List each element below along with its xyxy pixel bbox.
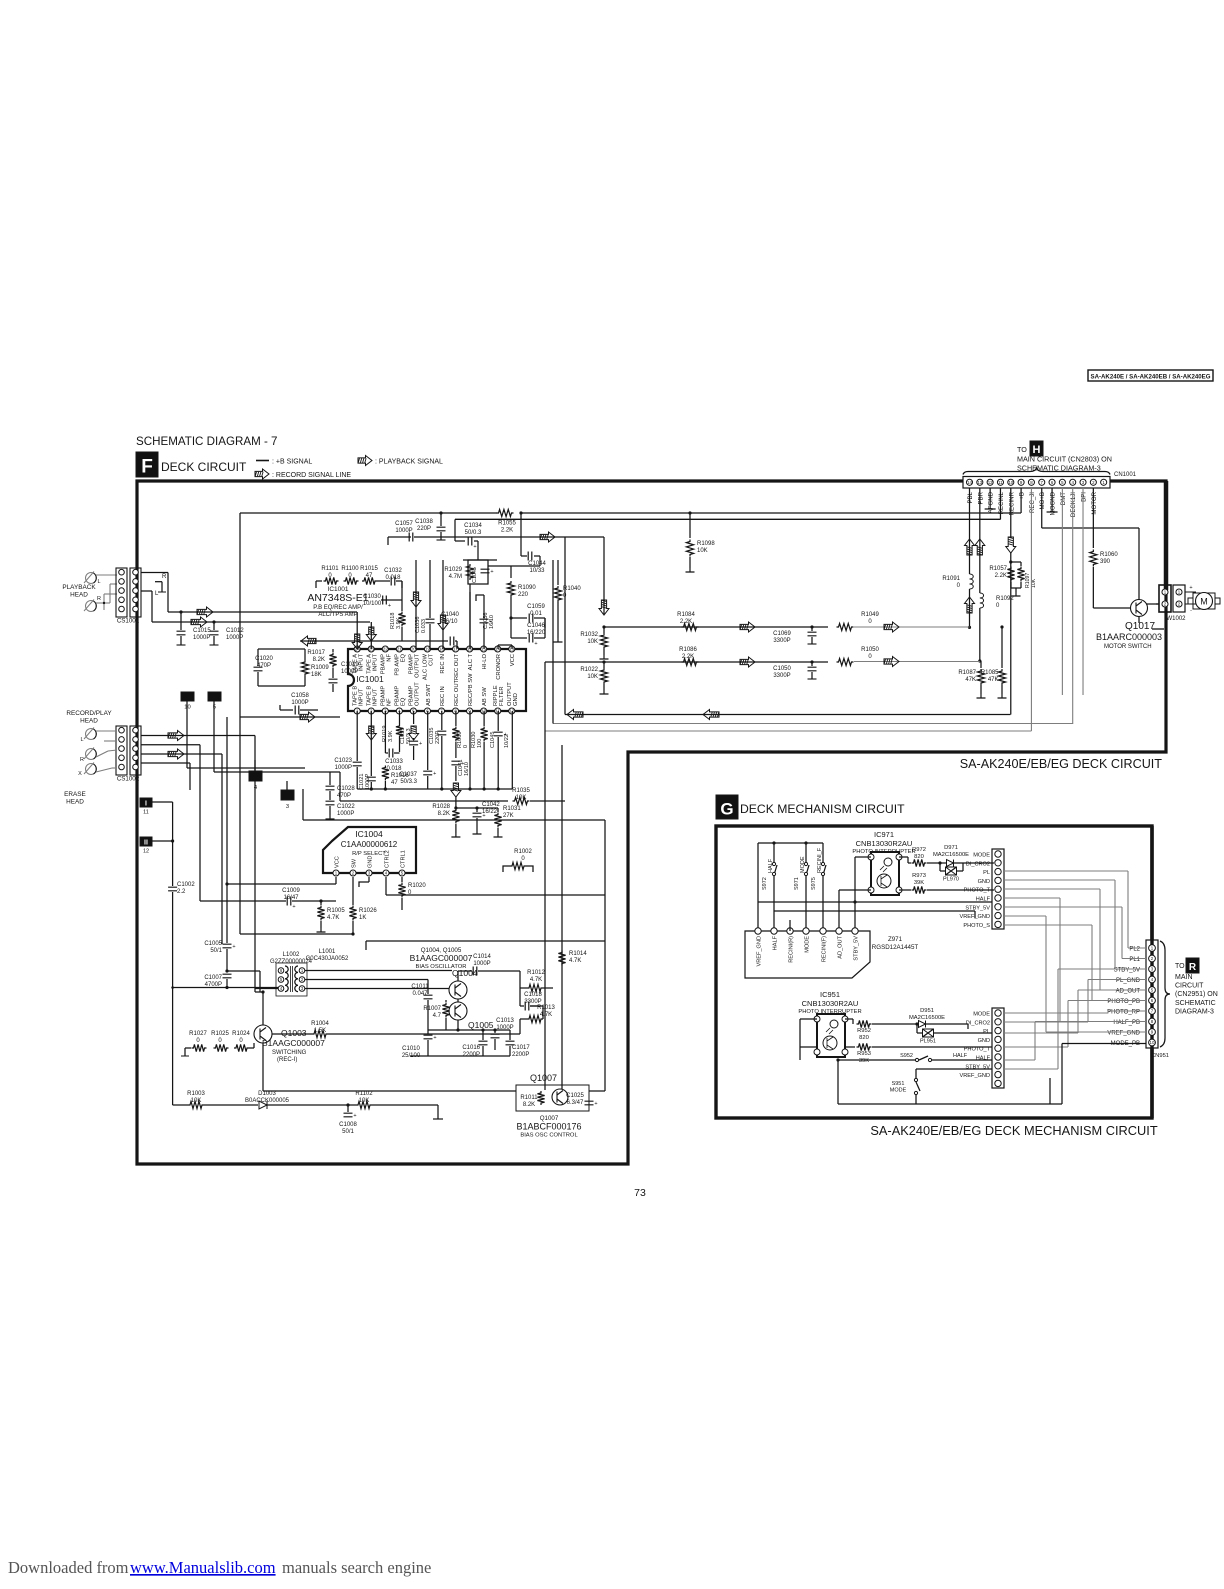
- svg-text:+: +: [473, 544, 476, 550]
- svg-text:2200P: 2200P: [512, 1052, 529, 1058]
- box R1029 C1045: [468, 560, 488, 584]
- svg-text:10/33: 10/33: [529, 568, 545, 574]
- section label F DECK CIRCUIT: [136, 452, 158, 477]
- svg-text:INPUT: INPUT: [358, 688, 364, 706]
- svg-text:820: 820: [914, 854, 924, 860]
- wire Q1003 emitter bus to Q1007: [262, 1043, 264, 1091]
- svg-text:+: +: [388, 603, 391, 609]
- svg-text:L1002: L1002: [283, 952, 300, 958]
- ground MOGND: [1051, 488, 1053, 508]
- svg-text:CS1001: CS1001: [117, 618, 140, 625]
- svg-text:S975: S975: [811, 877, 817, 890]
- svg-text:HALF_PB: HALF_PB: [1113, 1020, 1140, 1026]
- svg-text:FILTER: FILTER: [499, 686, 505, 706]
- svg-text:C1023: C1023: [334, 758, 352, 764]
- svg-text:PHOTO_PB: PHOTO_PB: [1107, 999, 1140, 1005]
- wire C1032 to pin22: [401, 581, 403, 588]
- svg-text:10K: 10K: [587, 639, 598, 645]
- svg-text:C1011: C1011: [411, 984, 429, 990]
- svg-text:S972: S972: [762, 877, 768, 890]
- svg-text:: PLAYBACK SIGNAL: : PLAYBACK SIGNAL: [375, 459, 443, 466]
- svg-text:220P: 220P: [435, 731, 441, 744]
- svg-text:RECINI_F: RECINI_F: [817, 847, 823, 873]
- svg-text:R1090: R1090: [518, 585, 536, 591]
- transistor Q1017 motor switch: [1131, 600, 1148, 617]
- test point 4: [249, 771, 262, 781]
- svg-text:100: 100: [477, 739, 483, 748]
- legend +B SIGNAL: [256, 460, 269, 462]
- svg-text:PHOTO_S: PHOTO_S: [963, 923, 990, 929]
- svg-text:VREF_GND: VREF_GND: [1107, 1031, 1140, 1037]
- svg-text:C1050: C1050: [773, 666, 791, 672]
- svg-text:HALF: HALF: [953, 1053, 968, 1059]
- resistor R1100: [344, 577, 359, 584]
- wire C1009 line: [199, 745, 201, 901]
- svg-text:PL: PL: [983, 870, 990, 876]
- switch S975 RECINI_F: [822, 843, 824, 862]
- svg-text:73: 73: [634, 1187, 646, 1199]
- svg-text:IC951: IC951: [820, 990, 840, 999]
- svg-text:R1015: R1015: [360, 566, 378, 572]
- wire R1084 line y627: [604, 626, 828, 628]
- svg-text:C1038: C1038: [415, 519, 433, 525]
- photo LED PL951: [916, 1024, 918, 1033]
- svg-text:Z971: Z971: [888, 936, 903, 943]
- svg-text:I: I: [145, 801, 147, 808]
- svg-text:16/10: 16/10: [464, 762, 470, 776]
- svg-text:(CN2951) ON: (CN2951) ON: [1175, 991, 1218, 998]
- svg-text:R1050: R1050: [861, 647, 879, 653]
- svg-text:VREF_GND: VREF_GND: [960, 1073, 990, 1079]
- svg-text:R1020: R1020: [408, 883, 426, 889]
- Z971 body: [745, 931, 870, 978]
- svg-text:10: 10: [1150, 1040, 1155, 1045]
- svg-text:10/100: 10/100: [363, 601, 382, 607]
- svg-text:Q1007: Q1007: [530, 1073, 557, 1083]
- deck mechanism box outline: [716, 826, 1152, 1118]
- svg-text:SCHEMATIC: SCHEMATIC: [1175, 1000, 1216, 1007]
- svg-text:R1091: R1091: [942, 576, 960, 582]
- wire gray to PBR: [854, 661, 980, 663]
- wire R chain: [185, 1047, 191, 1049]
- svg-text:47K: 47K: [965, 677, 976, 683]
- svg-text:R1012: R1012: [527, 970, 545, 976]
- svg-text:C1037: C1037: [399, 772, 417, 778]
- svg-text:-: -: [1190, 608, 1192, 614]
- svg-text:D951: D951: [920, 1008, 934, 1014]
- resistor R1022: [603, 662, 605, 668]
- svg-text:R1024: R1024: [232, 1031, 250, 1037]
- wire x239 column: [239, 717, 241, 934]
- svg-text:L: L: [80, 737, 83, 743]
- svg-text:R1085: R1085: [981, 670, 999, 676]
- svg-text:1000P: 1000P: [341, 669, 358, 675]
- wire R1086 line y662: [545, 661, 828, 663]
- svg-text:13: 13: [977, 480, 982, 485]
- svg-text:R1002: R1002: [514, 849, 532, 855]
- Z971 to ladder wires: [838, 905, 840, 911]
- svg-text:DECK1JI: DECK1JI: [1070, 492, 1077, 517]
- svg-text:39K: 39K: [914, 880, 924, 886]
- svg-text:1000P: 1000P: [365, 774, 371, 790]
- svg-text:18K: 18K: [311, 672, 322, 678]
- svg-text:MA2C16500E: MA2C16500E: [909, 1015, 945, 1021]
- svg-text:47K: 47K: [988, 677, 999, 683]
- svg-text:0.01: 0.01: [530, 611, 542, 617]
- svg-text:B1ABCF000176: B1ABCF000176: [516, 1122, 581, 1132]
- bus y789: [357, 788, 512, 790]
- long bus y911: [774, 910, 975, 912]
- svg-text:C1025: C1025: [566, 1093, 584, 1099]
- svg-text:DMT: DMT: [1060, 492, 1067, 505]
- svg-text:4.7K: 4.7K: [530, 977, 542, 983]
- svg-text:REC IN: REC IN: [440, 654, 446, 674]
- svg-text:2.2K: 2.2K: [501, 528, 513, 534]
- svg-text:2.2: 2.2: [177, 889, 186, 895]
- resistor R1029: [466, 564, 473, 580]
- wire Q1017 collector to W1002: [1151, 585, 1153, 590]
- svg-text:8.2K: 8.2K: [313, 657, 325, 663]
- svg-text:R1057: R1057: [989, 566, 1007, 572]
- svg-text:MODE: MODE: [890, 1088, 907, 1094]
- svg-text:2200P: 2200P: [463, 1052, 480, 1058]
- svg-text:1000P: 1000P: [335, 765, 352, 771]
- svg-text:OUTPUT: OUTPUT: [415, 654, 421, 678]
- wire motor +: [1185, 591, 1196, 593]
- wire IC951 left: [800, 1018, 817, 1020]
- wire PBR from CN1001 pin13: [979, 488, 981, 593]
- svg-text:S971: S971: [794, 877, 800, 890]
- svg-text:R1084: R1084: [677, 612, 695, 618]
- svg-text:R1011: R1011: [520, 1095, 538, 1101]
- resistor R1012: [527, 984, 543, 991]
- svg-text:PL951: PL951: [920, 1039, 936, 1045]
- svg-text:CUT: CUT: [429, 654, 435, 666]
- svg-text:R1032: R1032: [580, 632, 598, 638]
- wire MOTOR to R1060: [1092, 488, 1094, 548]
- svg-text:DI_CRO2: DI_CRO2: [966, 861, 990, 867]
- record/play head L: [86, 729, 97, 740]
- svg-text:12: 12: [988, 480, 993, 485]
- svg-text:C1046: C1046: [527, 623, 545, 629]
- svg-text:GND: GND: [367, 856, 373, 868]
- svg-text:AD_OUT: AD_OUT: [837, 935, 843, 958]
- resistor R1017: [332, 649, 334, 652]
- svg-text:C1033: C1033: [385, 759, 403, 765]
- bus y987: [173, 987, 278, 989]
- wire Q1003 collector up: [262, 992, 264, 1025]
- wire VCC pin13: [511, 645, 513, 649]
- wire IC1004 VCC: [335, 877, 337, 884]
- connector W1002 deck side: [1159, 585, 1171, 612]
- inductor R1091: [970, 574, 974, 589]
- resistor R1016: [382, 766, 389, 781]
- capacitor C1057: [388, 536, 411, 538]
- svg-text:4.7K: 4.7K: [327, 915, 339, 921]
- svg-text:R1029: R1029: [444, 567, 462, 573]
- resistor R953: [845, 1046, 855, 1048]
- svg-text:AB SW: AB SW: [482, 687, 488, 706]
- svg-text:AN7348S-E1: AN7348S-E1: [307, 592, 368, 604]
- test point 3: [281, 790, 294, 800]
- svg-text:C1009: C1009: [282, 888, 300, 894]
- wire RECINR: [1010, 488, 1012, 537]
- vertical feeders x545-567: [544, 662, 546, 731]
- wire REC_JI: [1030, 488, 1032, 731]
- resistor R1098: [689, 513, 691, 538]
- resistor R952: [845, 1018, 853, 1020]
- erase head: [86, 764, 97, 775]
- IC971 connector ladder: [992, 849, 1004, 929]
- svg-text:R1031: R1031: [503, 806, 521, 812]
- svg-text:4.7M: 4.7M: [449, 574, 462, 580]
- svg-text:3: 3: [286, 804, 289, 810]
- IC1004 pins: [333, 870, 339, 876]
- svg-text:R1035: R1035: [512, 788, 530, 794]
- svg-text:NF: NF: [387, 698, 393, 706]
- svg-text:2.2K: 2.2K: [995, 573, 1007, 579]
- svg-text:R: R: [1189, 962, 1197, 973]
- svg-text:0.047: 0.047: [412, 991, 428, 997]
- svg-text:R: R: [97, 596, 101, 602]
- switch S972 HALF: [773, 843, 775, 862]
- svg-text:820: 820: [859, 1035, 869, 1041]
- record arrow pin18: [442, 560, 444, 649]
- resistor R1085: [1001, 627, 1003, 668]
- svg-text:RECINR: RECINR: [1008, 491, 1015, 515]
- bus y820: [303, 819, 605, 821]
- svg-text:C1007: C1007: [204, 975, 222, 981]
- Q1007 box: [516, 1085, 589, 1111]
- svg-text:CRONOR: CRONOR: [496, 654, 502, 680]
- svg-text:Q1005: Q1005: [468, 1020, 494, 1030]
- svg-text:W1002: W1002: [1166, 616, 1186, 622]
- svg-text:C1032: C1032: [384, 568, 402, 574]
- svg-text:C1069: C1069: [773, 631, 791, 637]
- svg-text:C1028: C1028: [337, 786, 355, 792]
- resistor R1020: [401, 877, 403, 882]
- svg-text:MO+B: MO+B: [1039, 492, 1046, 509]
- svg-text:+: +: [232, 944, 235, 950]
- wire x172 column: [172, 802, 174, 886]
- svg-text:BIAS OSC CONTROL: BIAS OSC CONTROL: [520, 1133, 578, 1139]
- +B thick wire CN1001 to W1002: [1164, 481, 1169, 590]
- svg-text:GND: GND: [978, 1038, 990, 1044]
- svg-text:REC IN: REC IN: [440, 686, 446, 706]
- deck circuit box outline: [137, 481, 1166, 1164]
- svg-text:VCC: VCC: [510, 654, 516, 666]
- svg-text:REC_JI: REC_JI: [1029, 492, 1036, 513]
- wire pin9 down: [497, 789, 499, 795]
- wire IC1004 GND: [368, 877, 370, 882]
- svg-text:+: +: [433, 771, 436, 777]
- svg-text:VCC: VCC: [334, 856, 340, 868]
- svg-text:+: +: [489, 619, 492, 625]
- svg-text:47: 47: [391, 780, 398, 786]
- svg-text:C1016: C1016: [462, 1045, 480, 1051]
- svg-text:22: 22: [383, 647, 388, 652]
- svg-text:8.2K: 8.2K: [523, 1102, 535, 1108]
- svg-text:R1092: R1092: [996, 596, 1014, 602]
- svg-text:RECINI(F): RECINI(F): [821, 936, 827, 962]
- svg-text:10: 10: [1008, 480, 1013, 485]
- resistor R1090: [488, 565, 511, 567]
- record signal wire 2: [141, 753, 222, 755]
- svg-text:50/3.3: 50/3.3: [400, 779, 417, 785]
- svg-text:R953: R953: [857, 1051, 871, 1057]
- svg-text:IC1001: IC1001: [356, 674, 384, 684]
- svg-text:REC/PB SW: REC/PB SW: [468, 673, 474, 706]
- legend PLAYBACK SIGNAL: [358, 456, 372, 466]
- wire transformer to Q1004: [305, 970, 452, 972]
- svg-text:C1042: C1042: [482, 802, 500, 808]
- svg-text:CTRL2: CTRL2: [384, 850, 390, 868]
- resistor R1018: [398, 612, 405, 627]
- wire gray to PBL: [854, 626, 970, 628]
- svg-text:50/1: 50/1: [342, 1129, 354, 1135]
- resistor R1087: [980, 661, 982, 668]
- svg-text:C1018: C1018: [524, 992, 542, 998]
- svg-text:R1009: R1009: [311, 665, 329, 671]
- capacitor C1069: [810, 625, 813, 628]
- svg-text:+: +: [594, 1101, 597, 1107]
- bus y971: [227, 970, 260, 972]
- resistor R1009: [301, 660, 308, 676]
- svg-text:8.2K: 8.2K: [438, 811, 450, 817]
- head wires CS1001: [96, 574, 117, 576]
- transistor Q1007: [552, 1089, 568, 1105]
- resistor R1005: [320, 901, 322, 905]
- svg-text:+: +: [504, 732, 507, 738]
- svg-text:50/1: 50/1: [210, 948, 222, 954]
- svg-text:OUTPUT: OUTPUT: [415, 682, 421, 706]
- svg-text:DIAGRAM-3: DIAGRAM-3: [1175, 1008, 1214, 1015]
- wire PBL from CN1001 pin14: [969, 488, 971, 574]
- svg-text:R1101: R1101: [321, 566, 339, 572]
- svg-text:PHOTO_RP: PHOTO_RP: [1107, 1010, 1140, 1016]
- svg-text:PLAYBACK: PLAYBACK: [62, 584, 96, 591]
- svg-text:0: 0: [463, 745, 469, 748]
- long bus y902: [758, 901, 992, 903]
- connector CN951: [1146, 940, 1158, 1048]
- svg-text:MOTOR: MOTOR: [1091, 491, 1098, 514]
- transistor Q1004: [449, 981, 467, 999]
- bus y941: [366, 940, 605, 942]
- resistor R1007: [445, 1000, 447, 1002]
- resistor R1026: [352, 901, 354, 905]
- svg-text:3.9K: 3.9K: [396, 617, 402, 629]
- svg-text:0.018: 0.018: [385, 575, 401, 581]
- wire IC1004 SW: [352, 877, 354, 901]
- svg-text:Q1003: Q1003: [281, 1028, 307, 1038]
- svg-text:SW: SW: [351, 858, 357, 868]
- svg-text:220P: 220P: [417, 526, 431, 532]
- IC951 connector ladder: [992, 1008, 1004, 1088]
- resistor R1050: [837, 658, 854, 665]
- G box routing wires IC971 to CN951: [1004, 870, 1128, 872]
- svg-text:16/10: 16/10: [442, 619, 458, 625]
- playback arrow on C1057 line: [540, 532, 555, 542]
- svg-text:DECK MECHANISM CIRCUIT: DECK MECHANISM CIRCUIT: [740, 802, 905, 816]
- svg-text:R1040: R1040: [563, 586, 581, 592]
- svg-text:NF: NF: [387, 654, 393, 662]
- resistor R1031: [477, 807, 498, 809]
- svg-text:STBY_5V: STBY_5V: [853, 936, 859, 961]
- svg-text:CN1001: CN1001: [1114, 472, 1137, 478]
- svg-text:HEAD: HEAD: [80, 718, 98, 725]
- svg-text:SCHEMATIC DIAGRAM-3: SCHEMATIC DIAGRAM-3: [1017, 464, 1101, 473]
- svg-text:C1059: C1059: [527, 604, 545, 610]
- resistor R1019: [384, 711, 386, 724]
- record signal wire 1: [141, 735, 255, 737]
- wire RECINL: [999, 488, 1001, 519]
- svg-text:CTRL1: CTRL1: [400, 850, 406, 868]
- svg-text:L: L: [97, 579, 100, 585]
- svg-text:: +B SIGNAL: : +B SIGNAL: [272, 459, 312, 466]
- svg-text:CNB13030R2AU: CNB13030R2AU: [856, 839, 913, 848]
- svg-text:R973: R973: [912, 873, 926, 879]
- long return wire y723 gray: [553, 723, 1073, 725]
- svg-text:C1013: C1013: [496, 1018, 514, 1024]
- svg-text:+: +: [461, 761, 464, 767]
- svg-text:10K: 10K: [697, 548, 708, 554]
- svg-text:R1017: R1017: [307, 650, 325, 656]
- svg-text:R1055: R1055: [498, 521, 516, 527]
- wire R1102 end terminator: [437, 1105, 439, 1119]
- svg-text:SA-AK240E / SA-AK240EB / SA-AK: SA-AK240E / SA-AK240EB / SA-AK240EG: [1091, 374, 1211, 381]
- svg-text:1000P: 1000P: [291, 700, 308, 706]
- svg-text:390: 390: [1100, 559, 1111, 565]
- svg-text:www.Manualslib.com: www.Manualslib.com: [130, 1558, 276, 1577]
- svg-text:4.7K: 4.7K: [540, 1012, 552, 1018]
- svg-text:REC OUT: REC OUT: [454, 654, 460, 681]
- svg-text:10K: 10K: [587, 674, 598, 680]
- wire x604 down: [603, 537, 605, 614]
- svg-text:+: +: [534, 641, 537, 647]
- svg-text:R: R: [162, 574, 167, 580]
- CN951 brace: [1160, 941, 1170, 1047]
- IC1001 bottom pins: [354, 708, 360, 714]
- svg-text:VREF_GND: VREF_GND: [756, 936, 762, 966]
- svg-text:1K: 1K: [359, 915, 366, 921]
- photo LED PL970: [939, 863, 941, 871]
- svg-text:DECK CIRCUIT: DECK CIRCUIT: [161, 460, 247, 474]
- svg-text:CNB13030R2AU: CNB13030R2AU: [802, 999, 859, 1008]
- svg-text:STBY_5V: STBY_5V: [1114, 968, 1140, 974]
- svg-text:R1102: R1102: [355, 1091, 373, 1097]
- svg-text:220: 220: [518, 592, 529, 598]
- wire top bus y513 +B: [240, 512, 497, 514]
- wire to IC971 left pins: [855, 856, 871, 858]
- svg-text:C1019: C1019: [341, 662, 359, 668]
- brace above CN1001: [963, 468, 1110, 475]
- svg-text:2.2K: 2.2K: [680, 619, 692, 625]
- svg-text:C1002: C1002: [177, 882, 195, 888]
- svg-text:MAIN: MAIN: [1175, 974, 1193, 981]
- svg-text:HI-LO: HI-LO: [482, 654, 488, 670]
- svg-text:C1040: C1040: [441, 612, 459, 618]
- svg-text:MOTOR SWITCH: MOTOR SWITCH: [1104, 644, 1152, 650]
- svg-text:47: 47: [366, 573, 373, 579]
- svg-text:470P: 470P: [257, 663, 271, 669]
- svg-text:R1060: R1060: [1100, 552, 1118, 558]
- svg-text:11: 11: [143, 810, 149, 816]
- svg-text:TO: TO: [1175, 963, 1185, 970]
- svg-text:D1003: D1003: [258, 1091, 276, 1097]
- svg-text:12: 12: [143, 849, 149, 855]
- bottom bus y1104: [838, 1103, 1050, 1105]
- capacitor C1050: [810, 660, 813, 663]
